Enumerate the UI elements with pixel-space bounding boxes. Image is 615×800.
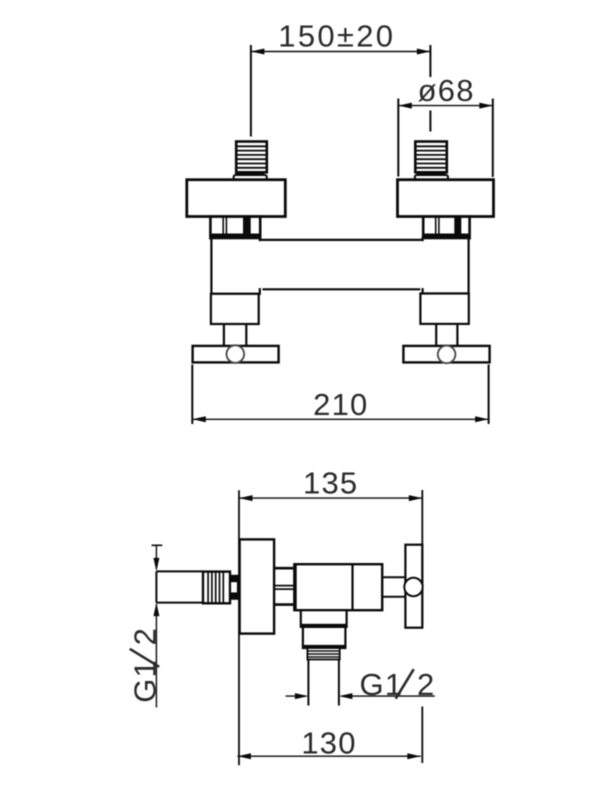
left knob collar [234, 172, 267, 179]
right knob (knurled) [415, 142, 447, 173]
wire: 135 right extension upper [421, 490, 423, 627]
outlet pipe [308, 660, 339, 706]
wire: 130 right extension lower [421, 707, 423, 764]
stem to cross handle [382, 577, 405, 597]
right union circle [438, 346, 456, 364]
bottom G1/2 dimension [286, 693, 435, 699]
body left thick edge [293, 564, 296, 610]
body left column [211, 238, 259, 294]
body right foot block [420, 294, 468, 324]
wire: left knob centerline / 150 dim extension [250, 45, 252, 137]
inlet tip piece [230, 576, 238, 599]
right escutcheon plate [398, 180, 494, 217]
wire: 135/130 left extension (long) [238, 490, 240, 765]
bonnet divider [351, 564, 353, 610]
svg-text:ø68: ø68 [418, 73, 475, 108]
dimension 135 line [239, 497, 422, 499]
wire: ø68 left extension [397, 99, 399, 177]
dimension ø68 line [398, 105, 493, 107]
dimension 130 line [237, 753, 420, 759]
outlet threads [307, 648, 339, 660]
left valve neck (striped nut) [210, 217, 260, 239]
left escutcheon plate [187, 180, 285, 217]
dimension 210 [192, 365, 488, 425]
right knob collar [415, 172, 448, 179]
nipple between plate and body [274, 568, 293, 604]
G1/2 vertical dimension (left) [152, 545, 163, 707]
inlet pipe (left, G1/2) [156, 571, 203, 602]
body left foot block [211, 294, 259, 324]
dimension 150±20 line [251, 51, 431, 53]
body crossbar [258, 240, 426, 289]
svg-text:135: 135 [303, 466, 358, 501]
right wall flange [403, 346, 489, 363]
left union circle [227, 345, 245, 363]
wire: right knob centerline lower segment [429, 111, 431, 132]
svg-text:2: 2 [128, 627, 163, 645]
cross handle hub circle [404, 578, 422, 596]
cross handle bar [405, 545, 422, 628]
left knob (knurled) [236, 142, 267, 173]
svg-text:130: 130 [301, 726, 356, 761]
svg-text:210: 210 [313, 387, 368, 422]
left leg tube [224, 324, 246, 346]
wire: right knob centerline upper segment [429, 45, 431, 77]
left wall flange [193, 346, 279, 363]
right valve neck (striped nut) [423, 217, 469, 239]
valve body (side) [294, 564, 382, 610]
knurled nut on inlet [203, 572, 230, 604]
wall plate (side) [240, 539, 275, 633]
outlet step 1 [301, 610, 347, 627]
outlet step 2 [303, 627, 346, 648]
svg-text:150±20: 150±20 [278, 19, 395, 54]
label G1/2 rotated [128, 627, 163, 703]
svg-text:2: 2 [417, 667, 435, 702]
body right column [423, 238, 469, 293]
label G1/2 bottom [360, 667, 436, 702]
wire: ø68 right extension [492, 99, 494, 178]
right leg tube [436, 324, 457, 346]
